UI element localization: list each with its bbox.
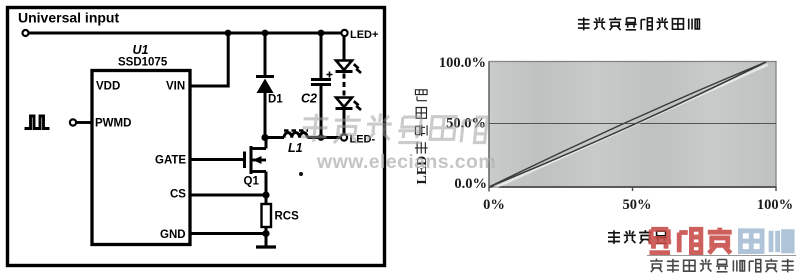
Q1 source stub xyxy=(251,170,266,173)
transistor Q1 (N-MOSFET) xyxy=(244,138,267,196)
svg-text:GATE: GATE xyxy=(155,155,186,167)
wire: C2 to output node xyxy=(320,85,323,138)
C2 bottom plate xyxy=(311,83,331,86)
svg-text:SSD1075: SSD1075 xyxy=(118,57,168,69)
LED triangle xyxy=(336,61,352,71)
wire: top rail to D1 cathode xyxy=(264,33,267,77)
svg-text:C2: C2 xyxy=(301,92,317,106)
node: CS junction xyxy=(262,191,269,198)
D1 cathode bar xyxy=(256,75,274,78)
ground xyxy=(256,237,276,247)
ground bar xyxy=(256,245,276,248)
node: C2 bottom junction xyxy=(318,134,325,141)
LED cathode bar xyxy=(336,70,353,73)
LED D3 (bottom LED) xyxy=(336,98,362,111)
watermark underline xyxy=(647,255,796,257)
svg-text:www.elecians.com: www.elecians.com xyxy=(316,151,496,173)
svg-text:100%: 100% xyxy=(757,197,793,213)
svg-text:LED+: LED+ xyxy=(350,29,378,41)
resistor RCS xyxy=(262,204,300,227)
wire: PWMD terminal to U1 xyxy=(76,121,92,124)
LED emission arrows xyxy=(354,101,361,110)
wire: LED string to LED- terminal xyxy=(343,110,346,134)
LED triangle xyxy=(336,98,352,108)
svg-text:Q1: Q1 xyxy=(244,176,260,188)
terminal LED- (open circle) xyxy=(341,134,347,140)
wire: top rail to C2 xyxy=(320,33,323,79)
chart 50% gridline xyxy=(489,123,776,125)
wire: switch node to inductor xyxy=(265,136,284,139)
chart x ticks xyxy=(489,187,776,192)
wire: inductor to LED- xyxy=(308,136,342,139)
watermark slogan 射频和天线设计专家 xyxy=(650,259,794,273)
svg-text:Universal input: Universal input xyxy=(18,10,119,26)
node: VIN junction on top rail xyxy=(225,30,232,37)
stray dot artifact xyxy=(299,172,303,176)
wire: Q1 drain to switch node xyxy=(265,138,268,149)
chart title (fake CJK) 脉冲宽度调光曲线 xyxy=(578,17,700,30)
PWM pulse symbol xyxy=(25,116,50,129)
D1 anode triangle xyxy=(257,79,274,94)
svg-text:VDD: VDD xyxy=(96,81,120,93)
chart y-axis label LED电流比例 (rotated) xyxy=(415,90,430,185)
svg-text:D1: D1 xyxy=(268,94,283,106)
C2 polarity plus sign xyxy=(327,72,333,78)
LED string: wire from LED+ down xyxy=(343,36,346,61)
node: GND junction xyxy=(262,230,269,237)
wire: VIN pin to top rail xyxy=(190,33,228,86)
LED emission arrows xyxy=(354,64,361,73)
node: C2 junction on top rail xyxy=(318,30,325,37)
svg-text:L1: L1 xyxy=(288,141,303,155)
terminal LED+ (open circle) xyxy=(341,30,347,36)
node: switch node junction xyxy=(261,134,268,141)
terminal PWMD input (open circle) xyxy=(70,119,76,125)
svg-text:100.0%: 100.0% xyxy=(439,55,486,71)
ground stub xyxy=(265,237,268,246)
capacitor C2 xyxy=(301,33,333,138)
svg-text:RCS: RCS xyxy=(275,211,300,223)
svg-text:CS: CS xyxy=(170,189,186,201)
chart dimming curve (double line) xyxy=(490,62,768,189)
C2 top plate xyxy=(311,78,331,81)
LED cathode bar xyxy=(336,107,353,110)
svg-text:VIN: VIN xyxy=(166,81,185,93)
svg-text:PWMD: PWMD xyxy=(95,118,131,130)
LED D2 (top LED) xyxy=(336,61,362,74)
Q1 channel bar xyxy=(250,146,253,174)
node: D1 junction on top rail xyxy=(262,30,269,37)
svg-text:GND: GND xyxy=(160,229,186,241)
Q1 body stub xyxy=(251,159,266,162)
watermark: red 易迪拓培训 xyxy=(648,228,792,254)
wire: top rail from input to LED+ xyxy=(29,32,342,35)
svg-text:0%: 0% xyxy=(483,197,505,213)
chart plot area xyxy=(489,62,776,188)
Q1 gate bar xyxy=(243,152,246,169)
Q1 drain stub xyxy=(251,147,266,150)
wire: CS pin to Q1 source xyxy=(190,194,266,197)
chart left axis emphasis xyxy=(488,62,490,188)
input terminal (open circle) xyxy=(23,30,29,36)
schematic border frame xyxy=(8,8,385,266)
svg-text:0.0%: 0.0% xyxy=(454,176,487,192)
Q1 body arrow xyxy=(253,156,262,164)
wire: dashed LED string continuation xyxy=(343,74,346,97)
diode D1 xyxy=(256,33,283,138)
chart x-axis label 脉冲宽度 (fake CJK) xyxy=(608,230,667,244)
svg-text:50%: 50% xyxy=(623,197,652,213)
chart bottom axis emphasis xyxy=(489,186,777,188)
watermark: gray brush 电子发烧友网 xyxy=(301,114,488,144)
wire: GATE pin to Q1 xyxy=(190,158,243,161)
inductor L1 xyxy=(284,131,308,156)
wire: D1 anode to switch node xyxy=(264,93,267,138)
svg-text:U1: U1 xyxy=(133,43,149,57)
wire: junction to RCS xyxy=(265,195,268,204)
wire: RCS to ground node xyxy=(265,227,268,237)
wire: GND pin to ground node xyxy=(190,232,266,235)
op-amp U1 SSD1075 IC box xyxy=(92,43,190,245)
wire: Q1 source down xyxy=(265,172,268,196)
